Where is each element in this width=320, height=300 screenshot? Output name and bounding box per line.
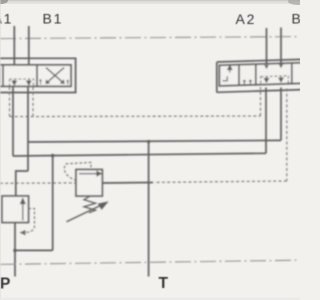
wire jog to unloader bbox=[16, 171, 28, 196]
valve V2 divider bbox=[255, 64, 257, 85]
valve V1 center box load-check dashed rect bbox=[10, 79, 34, 86]
valve V2 boxA bottom mark bbox=[223, 76, 228, 81]
svg-text:B1: B1 bbox=[43, 11, 64, 27]
svg-text:A2: A2 bbox=[236, 11, 257, 27]
D2 horizontal run right part bbox=[154, 181, 287, 182]
valve V1 check arrow a bbox=[12, 80, 16, 85]
valve V2 position boxes bbox=[219, 63, 302, 86]
D2 horizontal run left part bbox=[0, 182, 146, 185]
wire V1:B-port down (x=28) bbox=[27, 86, 29, 171]
arrowhead B1 into valve bbox=[26, 67, 31, 71]
D2 drop right bbox=[286, 89, 288, 182]
top-left corner blob bbox=[0, 0, 8, 4]
valve V1 crossed-flow X box arrows bbox=[45, 68, 64, 84]
dashed drain line D2: right valve down and across bbox=[0, 89, 287, 184]
valve V2 (right, cut off at right edge) bbox=[217, 59, 303, 92]
svg-text:T: T bbox=[159, 275, 169, 292]
relief valve RV pilot dashed bbox=[64, 162, 91, 180]
relief valve RV adjustment arrowhead bbox=[98, 201, 109, 209]
valve V2 boxB port stubs bbox=[243, 80, 246, 85]
wire right valve A down to L3 bbox=[265, 88, 267, 154]
wire bottom run to P line bbox=[15, 249, 53, 251]
unloading valve U1 pilot arrowhead bbox=[20, 230, 26, 235]
valve V2 divider bbox=[238, 65, 240, 86]
arrowhead A1 into valve bbox=[12, 67, 17, 71]
valve V2 boxC port arrowheads bbox=[264, 65, 268, 69]
D1 rise right bbox=[260, 87, 262, 116]
bottom edge light band bbox=[0, 298, 300, 300]
top edge gray band bbox=[0, 0, 300, 2]
top-right corner smudge bbox=[288, 0, 308, 5]
valve V1 check arrow b bbox=[27, 80, 31, 85]
port line B2 bbox=[280, 28, 282, 67]
wire V3 down from L3 junction bbox=[52, 156, 54, 251]
wire right valve B down to L1 bbox=[280, 88, 282, 141]
unloading valve U1 flow arrow bbox=[21, 199, 25, 221]
D1 horizontal run bbox=[10, 115, 261, 118]
left edge band bbox=[0, 0, 1, 300]
svg-text:A1: A1 bbox=[0, 11, 13, 27]
svg-text:B2: B2 bbox=[292, 11, 301, 27]
valve V1 divider bbox=[36, 65, 38, 86]
wire P port line bbox=[14, 223, 16, 277]
unloading valve U1 pilot dashed bbox=[21, 209, 35, 233]
wire L1 carryover to right valve bbox=[28, 140, 281, 142]
junction T on L1 bbox=[147, 140, 150, 143]
svg-text:P: P bbox=[0, 276, 10, 293]
dashed pilot line D1: left valve to right valve bbox=[10, 87, 261, 117]
valve V1 X-box port stubs bbox=[39, 79, 42, 84]
unloading valve U1 body bbox=[2, 196, 29, 223]
valve V2 check arrow b bbox=[279, 77, 283, 82]
junction on L3 bbox=[51, 154, 55, 158]
relief valve RV body bbox=[76, 170, 102, 197]
port line A1 bbox=[13, 26, 15, 68]
valve V2 check arrow a bbox=[264, 77, 268, 82]
wire L3 to right valve bbox=[13, 153, 266, 156]
valve V2 boxA bypass arrow bbox=[228, 66, 232, 73]
port line B1 bbox=[28, 26, 30, 68]
valve V2 divider bbox=[291, 63, 293, 84]
valve V2 boxC load-check dashed rect bbox=[261, 76, 289, 85]
wire T line down bbox=[148, 142, 150, 277]
D1 drop left b bbox=[32, 87, 34, 117]
bottom boundary dash-dot line bbox=[0, 260, 300, 264]
D1 drop left a bbox=[9, 87, 11, 117]
relief valve RV spring bbox=[84, 197, 96, 213]
valve V1 position boxes bbox=[0, 65, 71, 86]
wire V1:A-port down (x=13) bbox=[12, 86, 14, 156]
top boundary dash-dot line bbox=[0, 37, 300, 39]
valve V2 envelope bbox=[217, 59, 302, 92]
relief valve RV adjustment arrow bbox=[67, 205, 103, 222]
valve V1 envelope (left, cut off at image edge) bbox=[0, 58, 76, 92]
valve V1 divider bbox=[2, 65, 4, 86]
junction on P line bbox=[13, 249, 17, 253]
relief valve RV output solid to T line bbox=[102, 182, 153, 185]
port line A2 bbox=[266, 28, 268, 67]
relief valve RV internal arrow bbox=[79, 172, 101, 176]
